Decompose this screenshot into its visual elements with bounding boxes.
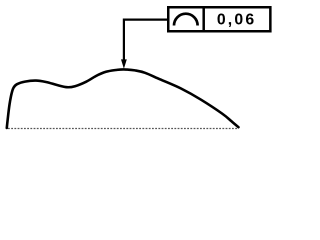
surface profile curve bbox=[7, 69, 239, 128]
leader wire (horizontal + vertical) bbox=[124, 20, 167, 62]
frame cell divider bbox=[202, 6, 205, 33]
profile-of-a-line symbol (semicircle) bbox=[174, 14, 198, 26]
dashed baseline (dimension line) bbox=[8, 128, 238, 130]
svg-text:0,06: 0,06 bbox=[217, 11, 257, 28]
feature control frame box bbox=[168, 7, 270, 31]
leader arrowhead bbox=[121, 59, 127, 68]
